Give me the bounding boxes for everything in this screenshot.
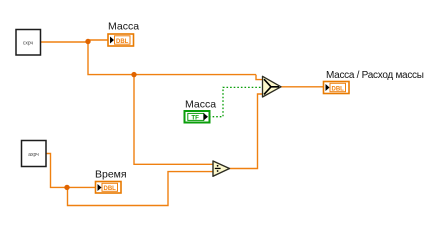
wire: boolean Масса TF control to Select selector input (green dotted) [209,87,263,116]
wire: junction J1 to Масса indicator terminal [87,39,108,41]
svg-text:Масса / Расход массы: Масса / Расход массы [326,70,424,81]
svg-text:схрч: схрч [23,41,34,47]
svg-text:Масса: Масса [108,21,139,33]
svg-text:TF: TF [191,115,199,122]
control terminal Масса (TF boolean) [185,111,210,123]
svg-text:ахрч: ахрч [28,152,39,158]
wire: subVI1 output to junction J1 [40,41,88,43]
wire: Select output to result terminal [281,86,323,88]
junction J3 [64,185,69,190]
svg-text:Время: Время [95,169,127,181]
subVI icon 2 (source of Время) [22,141,47,167]
wire: subVI2 output to junction J3 [46,154,95,188]
Divide function node [213,161,230,176]
wire: Divide output up to Select bottom input [230,94,263,169]
junction J2 [131,72,136,77]
wire: bend into Select top input [256,75,263,80]
indicator terminal Масса (DBL) [108,34,134,46]
wire: junction J1 down and right to junction J2 [88,42,256,75]
wire: junction J2 down to Divide top input [134,75,213,165]
indicator terminal Масса / Расход массы (DBL) [324,82,350,94]
Select function node [263,76,282,97]
svg-text:DBL: DBL [332,86,345,92]
svg-text:DBL: DBL [104,186,117,192]
svg-text:Масса: Масса [185,99,216,111]
wire: junction J3 down, right, up to Divide bottom input [68,172,214,206]
subVI icon 1 (source of Масса) [16,30,41,56]
svg-text:DBL: DBL [116,39,129,45]
control terminal Время (DBL) [96,182,122,194]
junction J1 [85,39,90,44]
